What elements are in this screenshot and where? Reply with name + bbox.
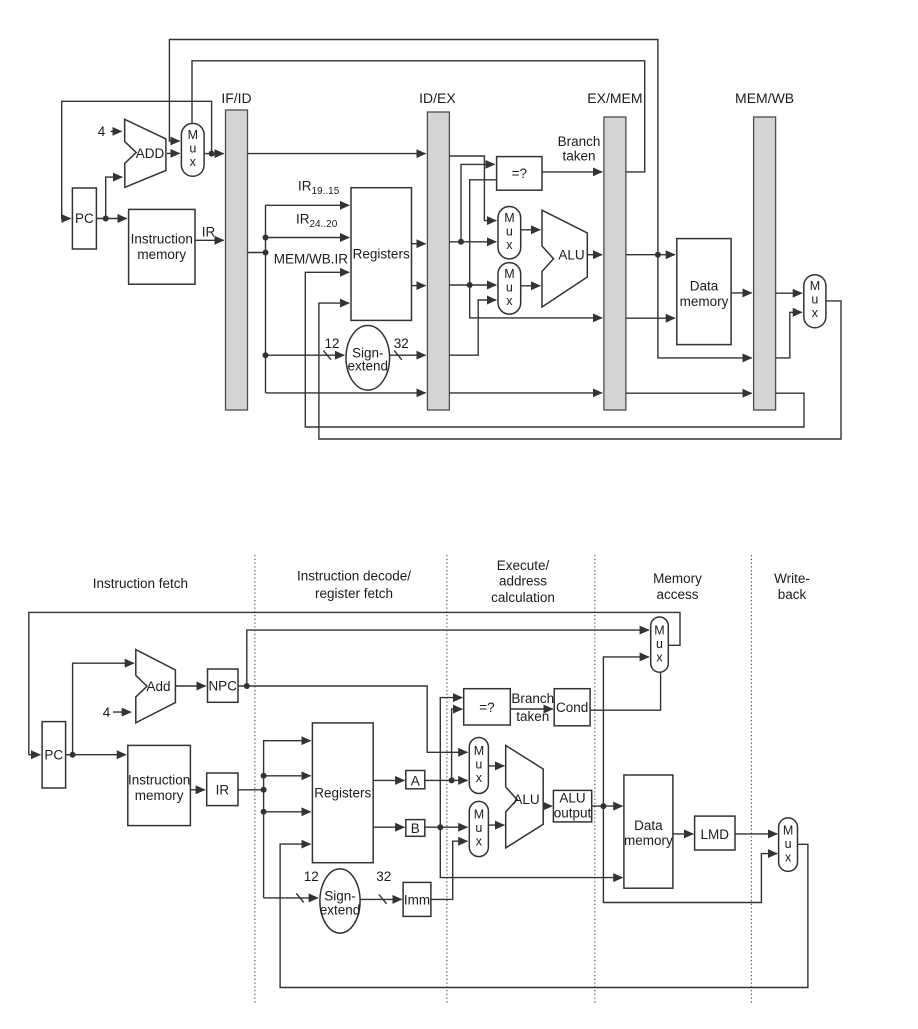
junction PC output (bottom) (70, 752, 76, 758)
mux M5 (EX input A select) (469, 738, 488, 794)
svg-text:x: x (506, 294, 513, 308)
wire Registers to A (373, 779, 404, 781)
svg-text:memory: memory (137, 247, 186, 262)
wire to Registers write register port (264, 811, 311, 813)
svg-text:NPC: NPC (208, 679, 237, 694)
svg-text:extend: extend (348, 359, 389, 374)
svg-text:x: x (476, 771, 483, 785)
wire ALU to ALU output register (543, 805, 552, 807)
svg-text:M: M (474, 808, 484, 822)
svg-text:Write-: Write- (774, 571, 810, 586)
stage separator EX/MEM (dotted) (594, 555, 596, 1003)
wire PC to ADD (106, 177, 123, 218)
mux M7 (next-PC select) (651, 617, 669, 672)
junction NPC output (244, 683, 250, 689)
wire ALU output to data memory (592, 805, 623, 807)
adder ADD (125, 119, 166, 187)
wire bottom IR row to ID/EX (266, 392, 426, 394)
wire Registers to B (373, 826, 404, 828)
label Execute/address calculation (491, 558, 555, 605)
label Memory access (653, 571, 702, 602)
wire bottom IR row ID/EX to EX/MEM (449, 392, 602, 394)
svg-text:Instruction fetch: Instruction fetch (93, 576, 188, 591)
wire A to comparator (bottom) (452, 709, 463, 780)
svg-text:address: address (499, 574, 547, 589)
wire write-back loop mux M8 to Registers write data (280, 844, 808, 987)
junction A node (458, 239, 464, 245)
wire ADD to mux M1 (167, 152, 180, 154)
wire Registers output A to ID/EX (412, 243, 426, 245)
register LMD (695, 816, 735, 850)
wire to Registers read port 2 (264, 775, 311, 777)
ALU (top) (542, 210, 587, 307)
svg-text:Execute/: Execute/ (497, 558, 550, 573)
svg-text:u: u (475, 758, 482, 772)
wire Registers output B to ID/EX (412, 285, 426, 287)
svg-text:M: M (783, 824, 793, 838)
svg-text:M: M (504, 211, 514, 225)
mux M8 (write-back select) (779, 818, 798, 872)
svg-text:M: M (474, 744, 484, 758)
wire sign-extend output to ID/EX with bus slash 32 (390, 354, 426, 356)
svg-text:access: access (656, 587, 698, 602)
svg-text:M: M (810, 279, 820, 293)
junction A output (449, 777, 455, 783)
wire B to comparator (bottom) (440, 698, 462, 828)
svg-text:IR: IR (216, 783, 230, 798)
registers box (top) (351, 188, 412, 321)
pipeline register EX/MEM (587, 90, 642, 410)
svg-text:ADD: ADD (136, 146, 165, 161)
svg-text:Data: Data (690, 279, 719, 294)
register PC (top) (72, 188, 96, 249)
wire memory data MEM/WB to mux M4 (776, 292, 803, 294)
register NPC (208, 669, 239, 702)
svg-text:4: 4 (98, 124, 106, 139)
svg-text:32: 32 (376, 869, 391, 884)
wire mux M3 to ALU (521, 285, 541, 287)
wire ALU output up to mux M7 (603, 657, 649, 806)
svg-text:=?: =? (512, 166, 527, 181)
wire mux M6 to ALU (bottom) (488, 824, 504, 826)
svg-text:u: u (506, 225, 513, 239)
svg-text:x: x (506, 238, 513, 252)
junction PC output (103, 216, 109, 222)
wire to sign-extend with bus slash 12 (266, 354, 345, 356)
sign-extend (top) (346, 326, 390, 391)
wire Imm to mux M6 (431, 841, 468, 899)
wire mux M7 output loop to PC (29, 612, 680, 754)
svg-text:4: 4 (103, 705, 111, 720)
wire A to mux M5 (425, 779, 468, 781)
svg-text:M: M (654, 624, 664, 638)
mux M2 (ALU input A) (498, 207, 521, 259)
wire write-register loop MEM/WB to Registers (305, 272, 804, 427)
svg-text:taken: taken (562, 149, 595, 164)
data memory (top) (677, 239, 731, 345)
wire IR vertical to Registers read port 1 (264, 741, 311, 898)
constant 4 input (98, 124, 122, 139)
pipeline register IF/ID (221, 90, 251, 410)
wire comparator to EX/MEM (542, 171, 602, 173)
wire mux M1 to IF/ID (204, 153, 224, 155)
wire IR vertical to Registers read port 1 (266, 205, 350, 393)
svg-text:ALU: ALU (559, 791, 585, 806)
stage separator IF/ID (dotted) (254, 555, 256, 1003)
wire mux M2 to ALU (521, 229, 541, 231)
label Branch taken (bottom) (511, 691, 554, 724)
svg-text:calculation: calculation (491, 590, 555, 605)
svg-text:12: 12 (324, 336, 339, 351)
register B (406, 820, 425, 837)
svg-text:x: x (476, 835, 483, 849)
wire NPC long row to mux M7 (247, 630, 649, 686)
svg-text:x: x (656, 651, 663, 665)
svg-text:Registers: Registers (314, 786, 371, 801)
svg-text:=?: =? (479, 700, 494, 715)
svg-text:u: u (506, 281, 513, 295)
svg-text:u: u (785, 837, 792, 851)
wire comparator to Cond (510, 708, 553, 710)
svg-text:ALU: ALU (513, 792, 539, 807)
wire ALU output to EX/MEM (587, 254, 602, 256)
wire instruction memory to IR (190, 789, 205, 791)
svg-text:PC: PC (75, 211, 94, 226)
svg-text:Add: Add (146, 679, 170, 694)
junction IR node (261, 787, 267, 793)
stage separator MEM/WB (dotted) (750, 555, 752, 1003)
svg-text:Instruction: Instruction (131, 232, 193, 247)
wire B down to EX/MEM (470, 285, 602, 318)
sign-extend (bottom) (320, 869, 361, 933)
registers box (bottom) (312, 723, 373, 863)
svg-text:u: u (811, 293, 818, 307)
wire instruction memory to IF/ID, label IR (195, 239, 224, 241)
wire to sign-extend with bus slash 12 (bottom) (264, 897, 318, 899)
instruction memory (bottom) (128, 745, 191, 825)
svg-text:u: u (189, 142, 196, 156)
junction new-PC node (209, 151, 215, 157)
svg-text:Instruction: Instruction (128, 773, 190, 788)
svg-text:A: A (411, 774, 420, 789)
svg-text:register fetch: register fetch (315, 586, 393, 601)
svg-text:ID/EX: ID/EX (419, 90, 456, 106)
wire Cond to mux M7 select (590, 673, 661, 711)
svg-text:memory: memory (624, 833, 673, 848)
junction B node (467, 282, 473, 288)
junction IR write port (261, 809, 267, 815)
wire B to comparator (470, 180, 497, 285)
svg-text:IF/ID: IF/ID (221, 90, 251, 106)
junction B output (437, 824, 443, 830)
svg-text:Cond: Cond (556, 700, 588, 715)
junction ALU output node (600, 803, 606, 809)
register A (406, 771, 425, 789)
svg-text:x: x (785, 851, 792, 865)
svg-text:ALU: ALU (558, 248, 584, 263)
junction read port 2 (263, 235, 269, 241)
wire NPC to mux M5 (238, 686, 468, 752)
wire sign-extend to Imm with bus slash 32 (bottom) (360, 898, 402, 900)
wire B row EX/MEM to data memory (626, 317, 675, 319)
svg-text:x: x (190, 155, 197, 169)
register Cond (554, 689, 590, 726)
svg-text:M: M (504, 267, 514, 281)
pipeline register MEM/WB (735, 90, 794, 410)
instruction memory (top) (129, 209, 195, 284)
svg-text:taken: taken (516, 709, 549, 724)
wire B from ID/EX to mux M3 (449, 284, 496, 286)
wire data memory to MEM/WB (731, 292, 752, 294)
label Branch taken (top) (558, 134, 601, 164)
svg-text:MEM/WB: MEM/WB (735, 90, 794, 106)
wire mux M5 to ALU (bottom) (488, 765, 504, 767)
wire new-PC loop to PC (62, 101, 212, 218)
register IR (207, 773, 238, 806)
wire branch condition loop (EX/MEM to mux M1 select) (192, 61, 645, 172)
svg-text:Sign-: Sign- (324, 889, 356, 904)
wire NPC from ID/EX to mux M2 (449, 156, 496, 221)
svg-text:u: u (656, 637, 663, 651)
mux M1 (PC select) (181, 123, 204, 176)
svg-text:Imm: Imm (404, 893, 430, 908)
svg-text:Branch: Branch (511, 691, 554, 706)
svg-text:output: output (554, 806, 592, 821)
junction IR read port 2 (261, 773, 267, 779)
register Imm (403, 882, 431, 916)
svg-text:back: back (778, 587, 807, 602)
wire PC to instruction memory (bottom) (66, 754, 126, 756)
wire Imm from ID/EX to mux M3 (449, 300, 496, 355)
svg-text:M: M (188, 128, 198, 142)
label Write-back (774, 571, 810, 602)
mux M4 (write-back select, top) (804, 275, 826, 328)
svg-text:Branch: Branch (558, 134, 601, 149)
wire ALU out row EX/MEM to data memory (626, 254, 675, 256)
pipeline register ID/EX (419, 90, 456, 410)
wire PC to instruction memory (96, 218, 126, 220)
wire PC to Add (73, 663, 134, 755)
svg-text:x: x (812, 306, 819, 320)
mux M6 (EX input B select) (469, 801, 488, 856)
svg-text:MEM/WB.IR: MEM/WB.IR (274, 252, 348, 267)
junction IR node (263, 250, 269, 256)
svg-text:u: u (475, 821, 482, 835)
svg-text:EX/MEM: EX/MEM (587, 90, 642, 106)
svg-text:Data: Data (634, 818, 663, 833)
comparator =? (top) (497, 157, 542, 191)
svg-text:Instruction decode/: Instruction decode/ (297, 569, 411, 584)
svg-text:IR: IR (202, 225, 216, 240)
wire NPC row IF/ID to ID/EX (248, 153, 426, 155)
wire LMD to mux M8 (735, 833, 777, 835)
svg-text:B: B (411, 821, 420, 836)
constant 4 input (bottom) (103, 705, 131, 720)
wire ALU value MEM/WB to mux M4 (776, 312, 803, 358)
svg-text:Registers: Registers (353, 247, 410, 262)
ALU (bottom) (506, 745, 544, 848)
svg-text:memory: memory (135, 788, 184, 803)
data memory (bottom) (624, 775, 673, 888)
comparator =? (bottom) (464, 689, 511, 725)
wire B to data memory write data (440, 827, 622, 877)
wire write-data loop mux M4 to Registers (319, 301, 841, 439)
wire branch target loop (EX/MEM ALU out to mux M1) (169, 40, 658, 255)
mux M3 (ALU input B) (498, 263, 521, 315)
svg-text:12: 12 (304, 869, 319, 884)
register ALU output (553, 790, 591, 822)
wire B to mux M6 (425, 826, 468, 828)
svg-text:extend: extend (320, 903, 361, 918)
label Instruction decode/register fetch (297, 569, 411, 602)
register PC (bottom) (42, 722, 66, 788)
wire ALU output bypass to mux M8 (603, 806, 777, 902)
wire A to comparator (461, 164, 495, 241)
wire ALU out bypass to MEM/WB (658, 255, 752, 358)
svg-text:Memory: Memory (653, 571, 702, 586)
wire data memory to LMD (673, 833, 693, 835)
wire to Registers read port 2 (266, 237, 350, 239)
svg-text:memory: memory (680, 294, 729, 309)
wire bottom IR row EX/MEM to MEM/WB (626, 392, 752, 394)
junction ALU out node (655, 252, 661, 258)
svg-text:32: 32 (394, 336, 409, 351)
wire Add to NPC (175, 685, 205, 687)
svg-text:PC: PC (44, 748, 63, 763)
wire IR output (238, 789, 264, 791)
wire IR out of IF/ID (248, 252, 266, 254)
svg-text:LMD: LMD (701, 827, 730, 842)
adder Add (bottom) (136, 650, 176, 723)
stage separator ID/EX (dotted) (446, 555, 448, 1003)
wire A from ID/EX to mux M2 (449, 241, 496, 243)
